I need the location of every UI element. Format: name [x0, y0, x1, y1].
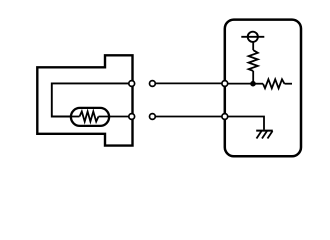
lamp DS1 [71, 108, 109, 126]
ground hatch 1 [257, 131, 262, 139]
wire lower harness [155, 116, 225, 118]
connector pin lower [150, 114, 156, 120]
wire lower node to ground [225, 117, 264, 130]
ground hatch 2 [262, 131, 267, 139]
lamp filament zigzag [80, 112, 99, 122]
terminal bottom (housing) [129, 114, 135, 120]
wire lamp right lead [99, 116, 133, 118]
box terminal lower [222, 114, 228, 120]
node junction dot [250, 81, 256, 87]
resistor R1 (vertical) [249, 50, 258, 71]
box terminal upper [222, 81, 228, 87]
lamp housing outline [37, 55, 132, 145]
connector pin upper [150, 81, 156, 87]
resistor R2 (horizontal) [263, 79, 285, 88]
ground hatch 3 [268, 131, 273, 139]
module box U1 [225, 20, 301, 157]
wire node to junction [225, 83, 253, 85]
wire lamp left lead [71, 116, 80, 118]
wire top inner loop [52, 83, 132, 116]
wire resistor to junction [252, 71, 254, 84]
wire supply to resistor [252, 42, 254, 50]
terminal top (housing) [129, 81, 135, 87]
ground bar [256, 130, 273, 132]
wire junction to R2 [253, 83, 263, 85]
supply terminal crossbar [241, 36, 264, 38]
supply terminal circle [248, 32, 258, 42]
wire upper harness [155, 82, 225, 84]
wire R2 right stub [285, 83, 293, 85]
